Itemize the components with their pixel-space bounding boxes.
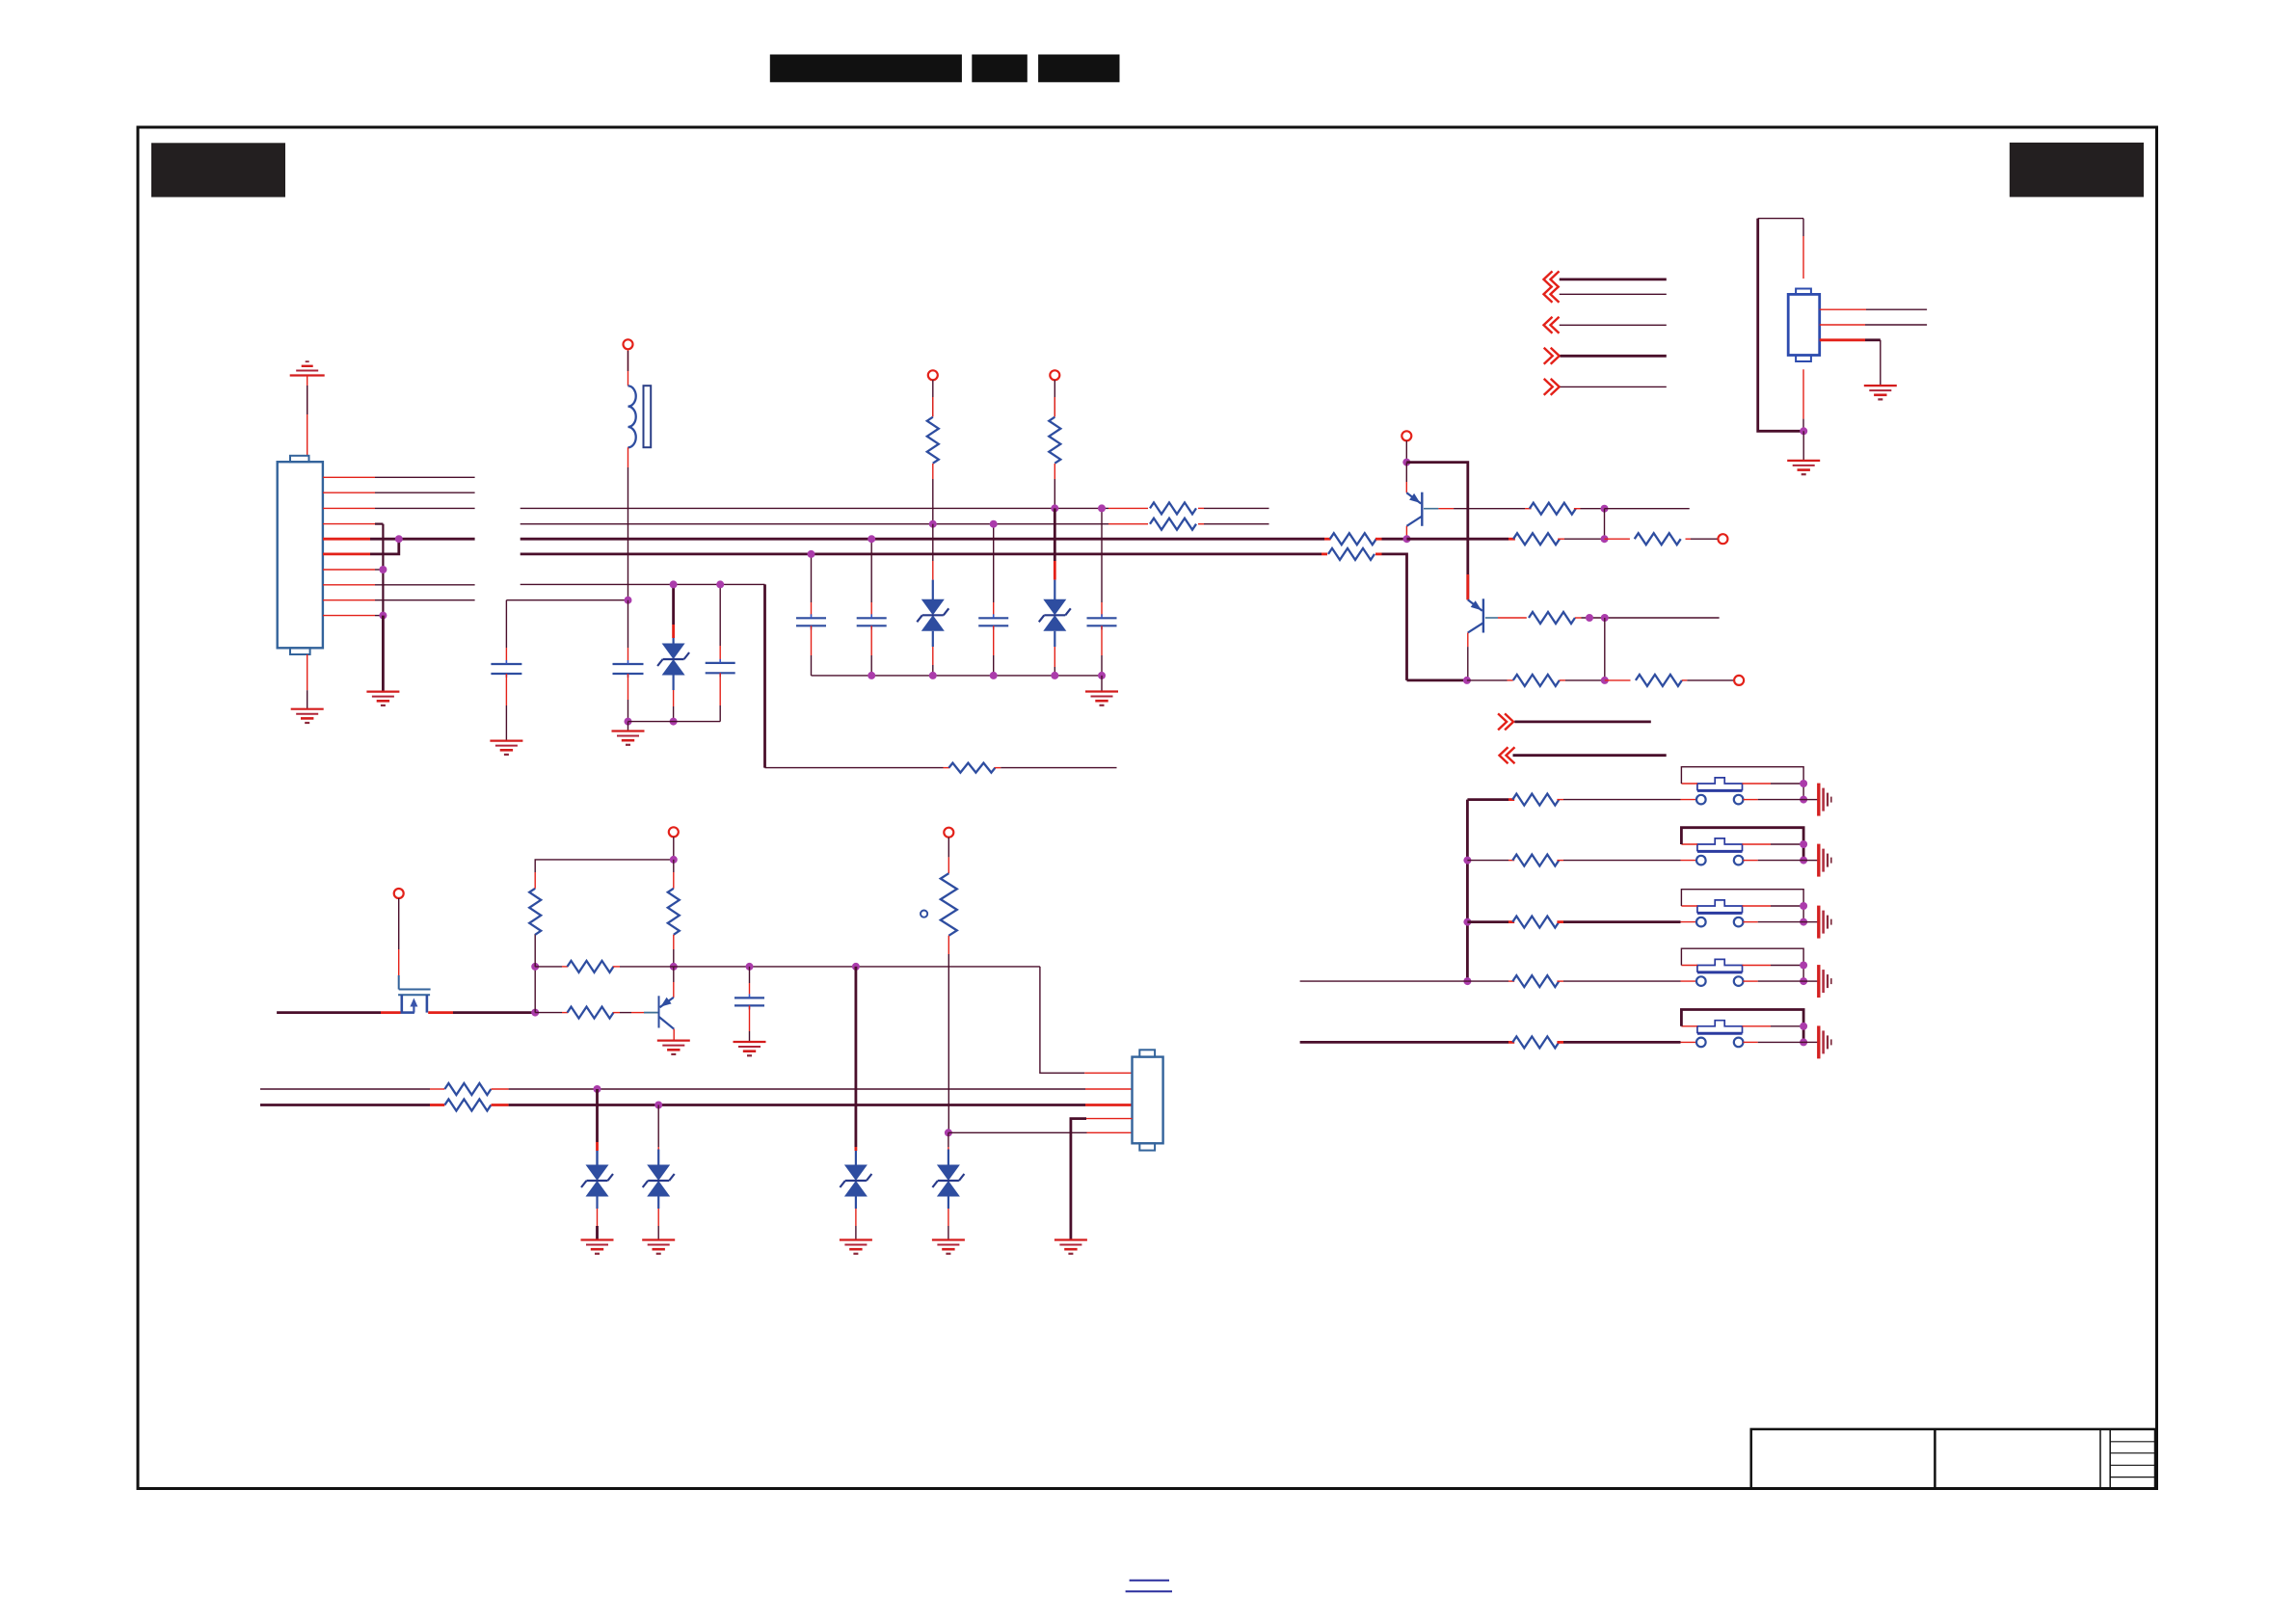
wire net5 thick bus [521,538,1324,541]
ground GND12 below D5 [642,1238,675,1240]
ground GND2 below connector CN1 [291,708,324,710]
wire SW5 bypass frame [1681,1010,1803,1043]
node R18 junction b [1601,614,1609,622]
capacitor C1 (left) [505,600,507,648]
resistor R25 for SW5 [1512,1036,1559,1048]
node Q1 collector junction [1403,535,1411,543]
ground GND-SW5 [1817,1025,1820,1058]
ground GND-SW1 [1817,784,1820,816]
ground GND6 [1085,690,1118,692]
wire CN1 bottom to GND2 [307,654,308,690]
TVS diode D5 [657,1105,659,1148]
signal arrow in3 [1544,317,1553,333]
transistor Q3 (PNP) [658,996,660,1027]
wire CN1 top to GND1 [307,376,308,456]
wire line-A to CN3 pin2 [260,1088,430,1090]
wire rail1 [628,721,721,723]
resistor R6 (pull-up) [673,860,675,872]
signal arrow in2 [1544,286,1553,303]
redacted title bar block 3 [1038,55,1119,83]
node SW1 upper junction [1800,780,1807,787]
signal arrow out2 [1551,379,1560,395]
node C4 top junction [808,550,815,558]
ground GND15 [1787,460,1820,462]
node Q3 emitter junction [670,963,678,971]
wire SW2 right lead [1743,860,1757,862]
signal arrow in1 (left, thick) [1544,271,1553,287]
resistor R3 vertical [948,838,949,858]
resistor R24 for SW4 [1512,975,1559,987]
wire net6 thick bus [521,553,1322,556]
node base-net junction [531,1009,539,1017]
ground GND5 [612,730,645,732]
wire Q2 collector rail [1407,679,1467,682]
resistor R11 in net4 [1150,519,1196,530]
wire T6 down [673,837,675,860]
wire SW2 upper leads [1681,843,1697,845]
wire drain line right [428,1011,453,1014]
node D1 bottom junction [670,718,678,726]
terminal T7 (output2) [1734,676,1744,685]
TVS diode D3 [1054,508,1056,561]
node R15/R16 junction [1601,505,1609,513]
wire SW5 upper leads [1681,1025,1697,1027]
wire bus to SW1 lead [1467,798,1508,801]
wire divider vertical [534,967,536,1013]
wire line-B to CN3 pin3 (thick) [260,1104,430,1106]
TVS diode D2 [932,524,934,561]
connector CN2 [1788,294,1820,355]
resistor R16 [1513,533,1560,545]
resistor R21 for SW1 [1512,794,1559,806]
ground GND4 below C1 [490,739,522,741]
signal arrow out1 (thick) [1551,348,1560,364]
wire net4 bus segment [521,523,1108,525]
wire T2 down to node [1405,440,1407,462]
node C6 top junction [990,520,998,528]
terminal T1 (top of inductor L1) [624,339,633,349]
node SW1 lower junction [1800,796,1807,804]
node Q1 emitter junction [1402,459,1410,466]
node SW2 lower junction [1800,857,1807,865]
wire node to Q2 emitter (thick L) [1406,463,1468,600]
wire CN1 pin 6 (thick) up to pin5 node [323,553,370,556]
wire bus to GND3 (thick) [382,616,385,692]
wire R15 node down to output net [1604,509,1606,540]
wire net5 right of Q1 [1407,538,1509,541]
terminal T3 (output1) [1718,534,1727,544]
wire CN2 pin c to GND14 [1820,338,1865,341]
node divider junction [531,963,539,971]
TVS diode D2 with pull-up R1 [928,370,938,380]
wire D6 column (thick) [855,967,858,1147]
wire node to CN3 pin 5 [948,1131,1087,1133]
wire SW3 bypass frame [1681,890,1803,922]
resistor R15 (Q1 base) [1530,503,1576,515]
wire CN2 pin a [1820,308,1866,310]
terminal T6 (pull-up top) [669,827,679,837]
ground GND-SW3 [1817,906,1820,939]
connector CN3 [1133,1057,1163,1144]
node pull-up top junction [670,856,678,864]
wire net8 bus to corner [521,583,765,585]
wire net3 bus segment [521,507,1108,509]
node SW4 lower junction [1800,977,1807,985]
node D7/CN3 junction [945,1129,952,1136]
node pin10 junction [379,612,387,620]
connector CN1 [278,462,323,648]
wire net6 corner down to Q2 collector rail [1382,554,1407,680]
wire rail2 to GND6 [1101,676,1103,692]
MOSFET Q4 [399,989,431,991]
wire SW1 bypass frame [1681,767,1803,800]
switch SW2 [1681,860,1697,862]
resistor R20 [1636,675,1682,686]
redacted block top-left [151,143,285,197]
transistor Q2 (PNP) [1482,599,1484,632]
node C7 bottom junction [1098,672,1106,679]
wire 1003 corner down to CN3 pin1 [1040,967,1084,1073]
node SW3 upper junction [1800,902,1807,910]
resistor R22 for SW2 [1512,855,1559,866]
signal arrow in4 (thick) [1500,747,1508,763]
node D5 junction [654,1102,662,1109]
wire CN1 pin 2 stub [323,492,375,493]
node output2 junction [1601,677,1609,684]
wire SW3 right lead [1743,921,1757,923]
capacitor C3 [719,584,721,646]
resistor R12 in net5 [1330,533,1376,545]
wire R3 down to TVS D7 node [948,954,949,1132]
page frame border [138,127,2157,1489]
capacitor C2 on L1 net [627,600,629,648]
wire SW1 upper leads [1681,783,1697,785]
node D6 top junction [852,963,860,971]
wire R5 to Q3 rail / horizontal 1003 [535,966,562,968]
resistor R17 [1635,533,1681,545]
footer link underline 2 [1126,1590,1172,1592]
ground GND-SW2 [1817,844,1820,877]
redacted title bar block 2 [972,55,1028,83]
capacitor C5 [870,539,872,602]
resistor R23 for SW3 [1512,917,1559,928]
resistor R13 in net6 [1328,548,1375,560]
redacted block top-right [2010,143,2144,198]
wire rail1 to GND5 [627,722,629,731]
ground GND8 below Q3 [657,1039,690,1041]
footer link underline 1 [1130,1580,1169,1582]
capacitor C7 [1101,508,1103,602]
wire Q1 base lead [1424,508,1438,510]
title block divider 2 [2099,1429,2101,1489]
title block divider 3 [2109,1429,2111,1489]
node SW3 lower junction [1800,918,1807,926]
wire SW4 bypass frame [1681,948,1803,981]
node SW5 lower junction [1800,1038,1807,1046]
resistor R19 [1513,675,1560,686]
resistor R9 in line-B [444,1100,491,1111]
node D3 bottom junction [1051,672,1058,679]
node SW4 upper junction [1800,962,1807,970]
wire CN1 pin 1 stub [323,476,375,478]
inductor L1 core [644,386,652,447]
wire net 1003 to C8 and D6 [674,966,1040,968]
ground GND-SW4 [1817,965,1820,998]
inductor L1 coil [628,386,636,447]
node D1 top junction [670,580,678,588]
wire SW5 right lead [1743,1041,1757,1043]
wire CN1 pin 7 to bus node [323,569,375,571]
ground GND11 below D4 [581,1238,614,1240]
title block outline [1751,1429,2155,1489]
no-connect marker [921,911,927,918]
ground GND13 [1055,1238,1087,1240]
node R1/net4 junction [929,520,937,528]
wire SW4 upper leads [1681,965,1697,967]
wire CN1 pin 9 stub [323,599,375,601]
capacitor C6 [993,524,995,602]
node C6 bottom junction [990,672,998,679]
pull-up resistor R2 [1050,370,1059,380]
capacitor C8 [746,963,754,971]
wire Q2 base lead [1485,617,1498,619]
ground GND9 below C8 [734,1041,766,1043]
node output1 junction [1601,535,1609,543]
wire switch bus vertical (thick) [1466,800,1469,982]
node R18 junction a [1586,614,1593,622]
title block revision rows [2110,1441,2155,1443]
TVS diode D4 (thick lead) [596,1089,599,1142]
ground GND14 [1864,385,1897,386]
node L1/net9 junction [625,597,632,604]
node C5 bottom junction [868,672,875,679]
wire R18 node down [1604,618,1606,680]
wire L1 to bus crossing down [627,447,629,467]
wire CN2 bottom pin [1802,369,1804,418]
wire SW3 upper leads [1681,905,1697,907]
ground GND10 below D6 [840,1238,872,1240]
resistor R14 in net8 lower [948,763,995,773]
node D2 bottom junction [929,672,937,679]
wire SW4 right lead [1743,980,1757,982]
node R2/net3 junction [1051,504,1058,512]
node SW2 upper junction [1800,840,1807,848]
node CN2 ground junction [1800,427,1807,435]
resistor R10 in net3 [1150,502,1196,514]
ground GND7 below D7 [932,1238,965,1240]
node C3 top junction [716,580,724,588]
wire CN2 node to GND15 [1802,431,1804,461]
wire CN1 pin 4 to bus node [323,523,375,525]
resistor R5 (base) [568,1007,614,1019]
wire CN1 pin 8 stub [323,584,375,586]
TVS diode D6 [855,1151,857,1165]
node SW5 upper junction [1800,1023,1807,1030]
node C5 top junction [868,535,875,543]
switch SW4 [1681,980,1697,982]
wire net8 vertical down (thick) [763,584,766,767]
wire base net stub [1605,508,1690,510]
node rail1 left junction [625,718,632,726]
wire row4 left stub [1300,980,1468,982]
wire net8 lower horizontal [765,767,944,769]
wire SW2 bypass frame [1681,828,1803,861]
TVS diode D7 [948,1132,949,1147]
wire net9 cap link [506,599,627,601]
wire CN2 pin b [1820,324,1865,326]
switch SW3 [1681,921,1697,923]
wire rail2 from C4 [812,675,1103,677]
resistor R4 (upper divider) [534,934,536,967]
wire row5 lead (thick) [1300,1041,1508,1044]
resistor R8 in line-A [444,1083,491,1095]
signal arrow out3 (thick) [1505,713,1513,730]
wire bus to SW4 lead [1463,977,1471,985]
node pin7 junction [379,566,387,573]
wire CN2 top pin [1802,219,1804,236]
ground GND1 above connector CN1 [290,374,325,376]
node C7 top junction [1098,504,1106,512]
wire Q3 base rail [535,1012,562,1014]
capacitor C4 on net6 [811,554,813,602]
wire source line left [277,1011,381,1014]
wire T1 to L1 [627,349,629,386]
TVS diode D1 [672,584,675,625]
resistor R7 (feedback) [568,961,614,972]
node Q2 collector junction [1463,677,1471,684]
terminal T5 (gate) [394,889,404,898]
switch SW5 [1681,1041,1697,1043]
wire CN2 loop (thick) [1758,219,1804,432]
resistor R18 (Q2 base) [1529,612,1575,624]
node pin5/pin6 junction [395,535,403,543]
wire SW1 right lead [1743,799,1757,801]
transistor Q1 (PNP) [1405,463,1407,482]
wire bus to SW3 lead [1463,918,1471,926]
switch SW1 [1681,799,1697,801]
wire vertical bus pins 4-7-10 [382,524,384,616]
terminal T2 (Q1 emitter supply) [1402,431,1411,440]
wire gate [398,898,400,949]
redacted title bar block 1 [770,55,962,83]
wire CN2 loop top [1758,218,1803,220]
wire CN1 pin 5 stub (thick) [323,538,370,541]
node D4 junction [594,1085,601,1093]
wire bus to SW2 lead [1463,857,1471,865]
wire CN3 pin4 to GND13 [1086,1118,1133,1120]
terminal T4 (R3 top) [944,828,953,838]
title block divider 1 [1934,1429,1936,1489]
ground GND3 [366,690,399,692]
wire CN1 pin 3 stub [323,507,375,509]
wire CN1 pin 10 to bus node [323,615,375,617]
